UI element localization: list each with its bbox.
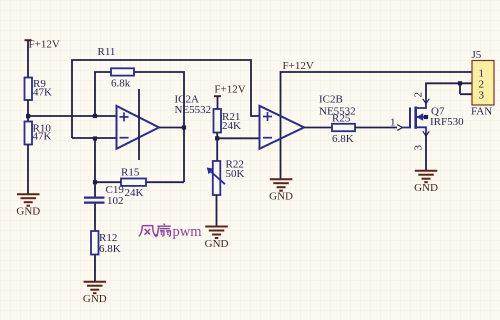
ground (below Q7) [414,171,438,195]
pin 3 (source) [413,131,430,150]
wire R11 right leg / feedback vertical [134,72,184,182]
pin 1 (gate) [390,116,403,130]
junction node C19/R15 [93,180,97,184]
svg-text:R11: R11 [98,46,116,58]
svg-text:24K: 24K [222,120,241,132]
svg-text:F+12V: F+12V [214,84,245,96]
svg-text:6.8K: 6.8K [332,133,354,145]
svg-text:R25: R25 [332,112,351,124]
op-amp IC2A [117,94,212,149]
wire R15 right leg [146,181,184,183]
ground (below R22) [205,227,229,251]
svg-text:F+12V: F+12V [29,38,60,50]
svg-text:102: 102 [107,195,124,207]
svg-text:3: 3 [413,145,425,151]
junction node IC2A output [182,125,186,129]
svg-text:F+12V: F+12V [283,60,314,72]
wire F+12V to R21 [217,96,219,109]
ground (below R12) [83,282,107,306]
svg-text:47K: 47K [33,86,52,98]
wire IC2A minus loop to IC2B plus (net) [72,60,260,138]
junction node J5 pin2 [458,81,462,85]
wire divider node to IC2A + input [28,115,117,117]
junction node R9/R10 [26,114,30,118]
junction node on + input [93,114,97,118]
resistor R11 [98,46,135,89]
label net 风扇pwm [139,224,171,237]
wire minus input down to C19 [94,138,96,197]
wire F+12V to R9 [27,40,29,78]
wire IC2A power pins [138,89,140,160]
junction node on minus input [93,136,97,140]
svg-text:GND: GND [414,182,438,194]
svg-text:GND: GND [269,191,293,203]
transistor Q7 [403,99,465,137]
svg-text:R15: R15 [121,167,140,179]
resistor R21 [214,109,242,133]
svg-text:24K: 24K [125,187,144,199]
ground (below R10) [16,194,40,218]
resistor R10 [25,122,52,145]
resistor R9 [25,78,53,101]
svg-text:6.8K: 6.8K [99,243,121,255]
svg-text:3: 3 [479,90,485,102]
pin 2 (drain) [413,92,430,104]
svg-text:pwm: pwm [173,224,203,240]
junction node Q7 body/source [424,115,428,119]
svg-text:47K: 47K [33,131,52,143]
wire R9 to R10 [27,100,29,122]
wire R21 to R22 [216,133,218,162]
svg-text:GND: GND [16,206,40,218]
wire R15 left leg [95,181,121,183]
resistor R12 [91,231,121,255]
wire divider to IC2B minus input [217,137,260,139]
svg-text:FAN: FAN [471,105,492,117]
svg-text:GND: GND [205,238,229,250]
svg-text:6.8k: 6.8k [111,77,131,89]
ground (below IC2B) [269,179,293,203]
wire R11 left leg to + input [95,72,111,116]
svg-text:IC2B: IC2B [319,94,343,106]
svg-text:J5: J5 [472,49,482,61]
wire R25 to Q7 gate [355,127,397,129]
svg-text:GND: GND [83,293,107,305]
svg-text:50K: 50K [226,168,245,180]
thermistor R22 [207,158,245,195]
power F+12V (top-left) [25,38,60,50]
wire IC2B output [304,127,332,129]
resistor R15 [121,167,146,200]
resistor R25 [332,112,355,145]
wire J5 pin2/pin3 to Q7 drain [426,83,472,98]
wire IC2A minus input [72,137,117,139]
wire C19 to R12 [94,204,96,231]
connector J5 [471,49,494,117]
wire R12 to ground [94,255,96,282]
wire R10 to ground [27,145,29,195]
svg-text:1: 1 [390,116,396,128]
junction node R21/R22 [215,136,219,140]
svg-text:IRF530: IRF530 [430,116,464,128]
svg-text:NE5532: NE5532 [175,104,212,116]
capacitor C19 [84,184,124,207]
wire Q7 source to ground [425,136,427,171]
power F+12V (above R21) [214,84,246,97]
svg-text:2: 2 [413,92,425,98]
op-amp IC2B [260,94,356,149]
wire R22 to ground [216,195,218,226]
wire F+12V rail [281,72,472,179]
wire IC2A output [159,127,184,129]
